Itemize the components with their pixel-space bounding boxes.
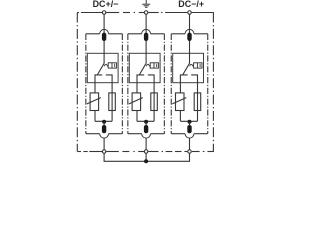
varistor MOV2 body: [132, 93, 141, 111]
module 3 (DC-/+ arrester path): [171, 14, 208, 149]
module 1 (DC+/- arrester path): [86, 14, 123, 149]
thermal disconnector F3 (top, filled capsule): [187, 33, 191, 41]
left fixed contact and lead to varistor: [137, 75, 144, 93]
wire top terminal to thermal disconnector: [189, 14, 191, 33]
wire hop arc over module top edge: [185, 29, 194, 33]
svg-text:DC+/−: DC+/−: [93, 0, 119, 9]
SCI switch box S2: [129, 53, 160, 82]
lower thermal disconnector (filled capsule): [102, 125, 106, 133]
wire hop arc over module top edge: [142, 29, 151, 33]
switch blade (open contact): [139, 63, 146, 75]
wire disconnector to SCI switch box: [189, 41, 191, 64]
arc chamber divider: [196, 63, 198, 68]
junction node (filled dot): [102, 120, 106, 124]
wire top terminal to thermal disconnector: [103, 14, 105, 33]
series element (fuse) box: [194, 93, 201, 111]
blade link bump to arc chamber: [190, 64, 194, 66]
lower thermal disconnector (filled capsule): [187, 125, 191, 133]
wire hop arc under module bottom edge: [185, 134, 194, 138]
series element (fuse) box: [109, 93, 116, 111]
series element (fuse) box: [151, 93, 158, 111]
varistor diagonal stroke: [87, 98, 101, 104]
wire disconnector to SCI switch box: [103, 41, 105, 64]
wire to bottom terminal: [145, 138, 147, 150]
arc chamber / indicator box: [194, 63, 202, 68]
wire node to lower disconnector: [145, 122, 147, 126]
module 2 (PE arrester path): [128, 14, 165, 149]
varistor MOV3 body: [176, 93, 185, 111]
junction node (filled dot): [188, 120, 192, 124]
varistor bottom lead: [136, 111, 138, 122]
enclosure right edge (dash-dot): [212, 13, 214, 152]
bottom joining bar: [95, 120, 112, 122]
switch blade (open contact): [97, 63, 104, 75]
arc chamber divider: [153, 63, 155, 68]
arc chamber inner tick: [199, 64, 201, 67]
wire bottom bus joining the three bottom terminals: [104, 153, 189, 161]
wire middle terminal drop to bus: [145, 153, 147, 161]
wire hop arc under module bottom edge: [142, 134, 151, 138]
wire node to lower disconnector: [103, 122, 105, 126]
top terminal circle: DC-/+ terminal: [188, 11, 192, 15]
switch blade (open contact): [183, 63, 190, 75]
enclosure top edge (dash-dot device boundary with terminals): [77, 12, 79, 14]
thermal disconnector F1 (top, filled capsule): [102, 33, 106, 41]
right fixed contact and lead through fuse element: [148, 75, 154, 121]
bottom terminal circle under module 2: [144, 150, 148, 154]
arc chamber inner tick: [156, 64, 158, 67]
bottom joining bar: [137, 120, 154, 122]
left fixed contact and lead to varistor: [95, 75, 102, 93]
enclosure bottom edge (dash-dot): [77, 151, 81, 153]
wire disconnector to SCI switch box: [145, 41, 147, 64]
left fixed contact and lead to varistor: [180, 75, 187, 93]
module 1 plug-in unit dashed box: [86, 33, 100, 35]
arc chamber / indicator box: [150, 63, 158, 68]
arc chamber inner tick: [114, 64, 116, 67]
blade link bump to arc chamber: [104, 64, 108, 66]
lower thermal disconnector (filled capsule): [144, 125, 148, 133]
bottom terminal circle under module 1: [102, 150, 106, 154]
varistor diagonal stroke: [172, 98, 186, 104]
bottom terminal circle under module 3: [188, 150, 192, 154]
wire to bottom terminal: [189, 138, 191, 150]
thermal disconnector F2 (top, filled capsule): [144, 33, 148, 41]
varistor bottom lead: [94, 111, 96, 122]
right fixed contact and lead through fuse element: [106, 75, 112, 121]
bus junction node (filled dot): [144, 159, 148, 163]
wire top terminal to thermal disconnector: [145, 14, 147, 33]
wire node to lower disconnector: [189, 122, 191, 126]
ground (PE earth symbol above middle terminal): [142, 0, 150, 7]
top terminal circle: DC+/- terminal: [102, 11, 106, 15]
wire to bottom terminal: [103, 138, 105, 150]
junction node (filled dot): [144, 120, 148, 124]
enclosure left edge (dash-dot): [76, 13, 78, 152]
module 3 plug-in unit dashed box: [171, 33, 185, 35]
arc chamber / indicator box: [108, 63, 116, 68]
top terminal circle: PE terminal: [144, 11, 148, 15]
SCI switch box S3: [173, 53, 204, 82]
varistor diagonal stroke: [129, 98, 143, 104]
SCI switch box S1: [87, 53, 118, 82]
right fixed contact and lead through fuse element: [191, 75, 197, 121]
bottom joining bar: [180, 120, 197, 122]
varistor MOV1 body: [90, 93, 99, 111]
module 2 plug-in unit dashed box: [128, 33, 142, 35]
blade link bump to arc chamber: [146, 64, 150, 66]
arc chamber divider: [111, 63, 113, 68]
svg-text:DC−/+: DC−/+: [178, 0, 204, 9]
wire hop arc under module bottom edge: [100, 134, 109, 138]
varistor bottom lead: [179, 111, 181, 122]
wire hop arc over module top edge: [100, 29, 109, 33]
